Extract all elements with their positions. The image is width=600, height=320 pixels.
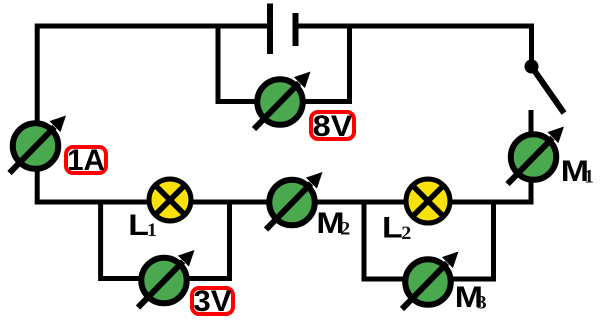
label box 3V (192, 285, 233, 318)
svg-text:3V: 3V (193, 285, 232, 318)
lamp L1 (149, 179, 191, 221)
label L2 (382, 211, 411, 244)
wire lamp L2 parallel branch (M3 loop) (364, 202, 494, 279)
label M1 (561, 154, 594, 187)
label M3 (455, 280, 487, 313)
svg-text:1: 1 (584, 167, 594, 187)
voltmeter 8V (across battery) (254, 72, 311, 130)
meter M1 (right) (508, 127, 565, 185)
ammeter 1A (left) (10, 116, 67, 174)
wire main outer loop: top-left to left side, bottom rail, right riser (37, 26, 531, 202)
battery B1 long plate (267, 4, 273, 55)
meter M2 (bottom rail) (266, 172, 323, 230)
wire voltmeter 8V branch around battery (218, 24, 350, 102)
label box 1A (66, 144, 106, 177)
label M2 (316, 206, 350, 239)
label box 8V (311, 109, 354, 142)
svg-text:8V: 8V (313, 109, 353, 142)
wire lamp L1 parallel branch (3V voltmeter loop) (101, 202, 230, 279)
battery B1 short plate (293, 13, 299, 46)
svg-text:2: 2 (340, 219, 350, 239)
svg-text:3: 3 (477, 293, 487, 313)
wire top-right from battery to switch (299, 26, 532, 64)
svg-text:1: 1 (147, 220, 157, 240)
svg-text:L: L (128, 208, 149, 241)
meter M3 (across L2) (402, 252, 459, 310)
switch S1 pivot dot (525, 60, 539, 74)
svg-text:1A: 1A (67, 144, 105, 177)
svg-text:L: L (382, 211, 403, 244)
svg-text:2: 2 (401, 223, 411, 243)
voltmeter 3V (across L1) (138, 250, 195, 308)
lamp L2 (406, 179, 450, 223)
label L1 (128, 208, 157, 241)
switch S1 open blade (532, 67, 565, 114)
